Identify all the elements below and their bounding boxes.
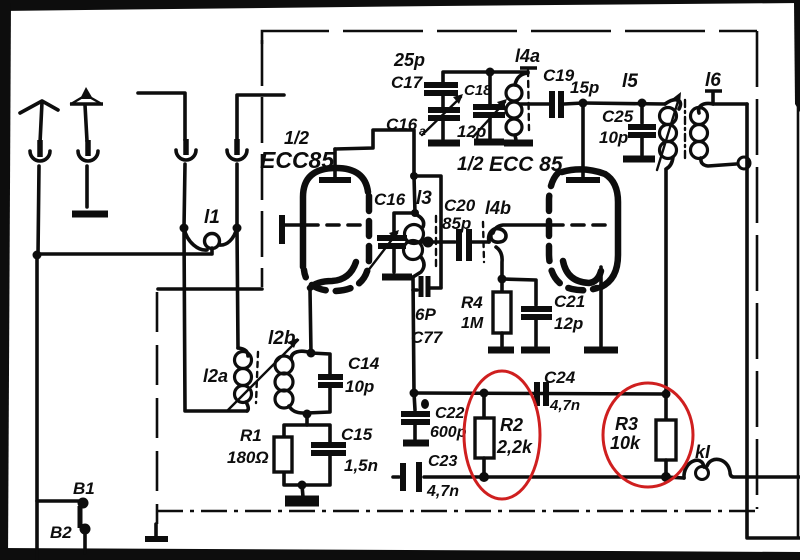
- antenna A1 arrow: [20, 101, 58, 113]
- ground below V2 cathode: [584, 347, 618, 354]
- svg-text:2,2k: 2,2k: [496, 437, 533, 457]
- plug P3: [183, 139, 189, 155]
- ground below R4: [488, 347, 514, 354]
- tube V2 envelope: [562, 169, 618, 287]
- svg-text:6P: 6P: [415, 305, 436, 324]
- svg-text:C14: C14: [348, 354, 380, 373]
- svg-text:R3: R3: [615, 414, 638, 434]
- svg-text:C17: C17: [391, 73, 424, 92]
- svg-text:4,7n: 4,7n: [549, 397, 580, 414]
- coil L1: [180, 224, 189, 233]
- trimmer C16a: [428, 107, 460, 113]
- svg-text:l4b: l4b: [485, 198, 511, 218]
- coil L2b: [291, 351, 311, 359]
- shield box top border: [262, 31, 757, 44]
- svg-text:C23: C23: [428, 453, 457, 470]
- coil L6: [699, 103, 713, 113]
- svg-text:B1: B1: [73, 479, 95, 498]
- svg-text:C24: C24: [544, 368, 576, 387]
- capacitor C14 branch: [311, 353, 330, 374]
- svg-text:12p: 12p: [554, 314, 583, 333]
- coil L4a: [520, 66, 537, 69]
- capacitor C17: [424, 82, 458, 88]
- svg-text:ECC 85: ECC 85: [489, 153, 563, 176]
- wire P1 down: [38, 166, 39, 255]
- wire stub top P4: [237, 95, 284, 140]
- wire stub top P3: [138, 93, 185, 140]
- terminal B2: [80, 524, 91, 535]
- shield box left border upper: [261, 40, 264, 287]
- tube V1 grid: [279, 215, 285, 244]
- svg-text:l4a: l4a: [515, 46, 540, 66]
- svg-text:25p: 25p: [393, 50, 425, 70]
- shield box left jog: [158, 287, 262, 291]
- wire P2 down: [85, 166, 89, 207]
- coil L5: [665, 100, 681, 109]
- shield box left border ground tick: [154, 524, 158, 536]
- page border top bar: [0, 0, 800, 11]
- shield box left border lower: [156, 292, 159, 524]
- wire node to L3: [414, 176, 415, 213]
- resistor R2: [482, 393, 486, 418]
- ground below C18: [474, 139, 504, 146]
- ground below C16a: [428, 140, 460, 147]
- svg-text:l5: l5: [622, 71, 638, 92]
- plug P2: [85, 140, 91, 156]
- shield box bottom border: [157, 510, 757, 513]
- tube V1 cathode wire down to L2b: [310, 290, 311, 353]
- trimmer C18 12p: [488, 72, 492, 104]
- capacitor C25: [640, 103, 644, 123]
- svg-text:kI: kI: [695, 442, 711, 462]
- capacitor C20: [428, 240, 455, 244]
- svg-text:l3: l3: [416, 188, 432, 209]
- tube V1 cathode: [310, 262, 356, 288]
- node L2b top: [307, 349, 316, 358]
- wire L3 frame right: [414, 176, 441, 287]
- highlight ellipse R3: [603, 383, 693, 487]
- trimmer C16: [394, 213, 415, 234]
- R1 C15 parallel block: [305, 414, 309, 425]
- wire P4 down: [235, 164, 239, 228]
- trimmer arrow C16: [367, 233, 397, 272]
- coil L3: [415, 214, 424, 227]
- svg-text:C20: C20: [444, 196, 476, 215]
- node below L2b: [303, 410, 312, 419]
- coil L6 top terminal: [705, 89, 722, 92]
- tube V2 cathode lead: [599, 267, 603, 346]
- node L3 tap: [407, 240, 427, 244]
- resistor R3: [664, 394, 668, 420]
- highlight ellipse R2: [464, 371, 540, 499]
- wire detector rail: [414, 393, 666, 394]
- capacitor C22: [414, 393, 415, 410]
- svg-text:1M: 1M: [461, 315, 484, 332]
- page border bottom bar: [0, 548, 800, 560]
- coil L2a: [238, 348, 248, 356]
- svg-text:R2: R2: [500, 415, 523, 435]
- top rail C17/C18/L4a: [443, 72, 528, 83]
- ground below C16: [382, 274, 412, 281]
- svg-text:10k: 10k: [610, 433, 641, 453]
- svg-text:B2: B2: [50, 523, 72, 542]
- tube V2 anode lead: [581, 103, 585, 180]
- capacitor C23: [393, 475, 399, 479]
- svg-text:15p: 15p: [570, 78, 599, 97]
- output terminal circle: [738, 157, 750, 169]
- capacitor C24: [534, 382, 540, 406]
- svg-text:l2b: l2b: [268, 328, 296, 349]
- coil kI: [666, 477, 684, 478]
- wire P3 down: [184, 164, 185, 228]
- tube V2 anode: [566, 177, 600, 183]
- svg-text:C16: C16: [374, 190, 406, 209]
- transformer core L5/L6: [684, 100, 686, 162]
- svg-text:180Ω: 180Ω: [227, 448, 269, 467]
- ground below C25: [623, 156, 655, 163]
- trimmer arrow C18: [473, 102, 505, 137]
- svg-text:ECC85: ECC85: [260, 147, 335, 173]
- wire L6 top to right: [713, 102, 747, 106]
- svg-text:C22: C22: [435, 405, 464, 422]
- svg-text:R1: R1: [240, 426, 262, 445]
- svg-text:1/2: 1/2: [284, 128, 309, 148]
- svg-text:C25: C25: [602, 107, 634, 126]
- terminal B1: [37, 499, 80, 503]
- svg-text:C77: C77: [411, 328, 444, 347]
- plug P4: [234, 139, 240, 155]
- svg-text:C18: C18: [464, 82, 492, 99]
- trimmer arrow C16a: [422, 97, 461, 135]
- svg-text:C21: C21: [554, 292, 585, 311]
- svg-text:10p: 10p: [599, 128, 628, 147]
- ground below R1: [302, 485, 303, 497]
- resistor R1: [274, 437, 292, 472]
- ink blob near C22: [421, 399, 429, 409]
- ground bar under P2: [72, 211, 108, 218]
- capacitor C19: [549, 91, 555, 118]
- wire P4 branch down to L2a top: [237, 228, 238, 348]
- wire L5 bottom down to R3: [664, 170, 668, 394]
- antenna A2 earth antenna: [80, 87, 93, 99]
- svg-text:12p: 12p: [457, 122, 486, 141]
- wire L1 tap to left rail: [37, 252, 211, 256]
- wire detector line right: [484, 475, 666, 479]
- svg-text:C16: C16: [386, 115, 418, 134]
- shield box right border: [756, 31, 759, 509]
- svg-text:4,7n: 4,7n: [426, 483, 459, 500]
- svg-text:a: a: [419, 124, 426, 138]
- plug P1: [37, 140, 43, 157]
- svg-text:85p: 85p: [442, 214, 471, 233]
- svg-text:10p: 10p: [345, 377, 374, 396]
- page border left bar: [0, 0, 11, 560]
- tube V2 grid: [551, 223, 608, 227]
- resistor R4: [500, 279, 504, 292]
- wire right vertical: [747, 104, 800, 538]
- coil L4b: [489, 229, 506, 243]
- node anode/L3 top: [410, 172, 418, 180]
- svg-text:R4: R4: [461, 293, 483, 312]
- capacitor C21: [502, 279, 536, 305]
- L4b core: [483, 222, 484, 262]
- anode rail V2: [583, 103, 665, 104]
- node at left rail: [33, 251, 42, 260]
- wire P3 branch down to L2a bottom: [184, 228, 247, 411]
- svg-text:1/2: 1/2: [457, 154, 484, 175]
- svg-text:l1: l1: [204, 207, 220, 228]
- capacitor C15: [311, 442, 346, 448]
- svg-text:1,5n: 1,5n: [344, 456, 378, 475]
- wire L3 bottom down: [413, 277, 414, 393]
- page border right bar: [794, 2, 800, 112]
- tube V2 cathode: [563, 261, 601, 283]
- anode V1 wiring to C17 node: [335, 130, 414, 176]
- capacitor C77 6p: [413, 288, 417, 292]
- tube V1 anode: [319, 177, 351, 183]
- L3 core: [435, 216, 437, 266]
- wire left rail down: [35, 255, 39, 560]
- ground below C22: [403, 440, 429, 447]
- tuning arrow L2: [228, 340, 298, 410]
- svg-text:l6: l6: [705, 70, 721, 91]
- tuning arrow L5: [657, 98, 679, 170]
- ground below L4a: [504, 140, 533, 147]
- tube V1 envelope: [303, 168, 368, 267]
- transformer core L2: [256, 352, 258, 403]
- svg-text:600p: 600p: [430, 424, 467, 441]
- svg-text:l2a: l2a: [203, 366, 228, 386]
- ground below C21: [521, 347, 550, 354]
- page border right edge line: [797, 104, 800, 539]
- svg-text:C15: C15: [341, 425, 373, 444]
- node R1 bottom: [298, 481, 307, 490]
